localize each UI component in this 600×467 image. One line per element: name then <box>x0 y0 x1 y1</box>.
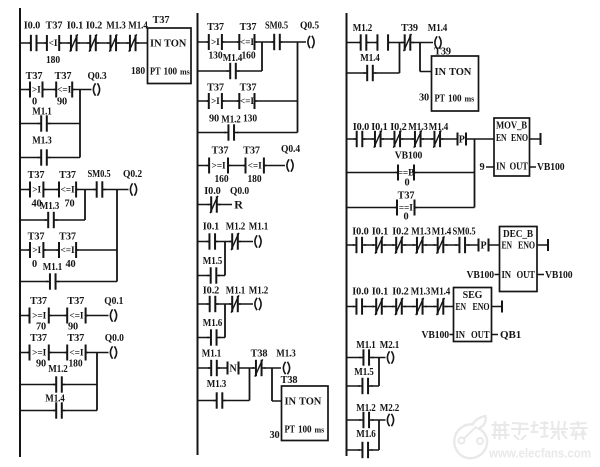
text EN ENO dec <box>502 241 536 252</box>
seg out wire <box>492 334 499 336</box>
contact I0.1 NC c3n2 <box>372 130 385 147</box>
label M1.2 c3n1 <box>353 23 373 34</box>
svg-text:180: 180 <box>131 65 146 77</box>
contact M1.3 NO net2 <box>38 149 51 165</box>
label M1.6 c3n6 <box>356 429 376 440</box>
wire compare1 to compare2 net4 <box>49 315 67 317</box>
label M1.3 <box>106 21 126 32</box>
svg-text:TON: TON <box>449 67 472 78</box>
label I0.1 c3n4 <box>372 287 388 298</box>
wire compare to I0.1 <box>59 42 69 44</box>
wire compare2 to SM0.5 c2n1 <box>255 41 274 43</box>
contact M1.3 NC c3n4 <box>413 298 428 315</box>
svg-text:9: 9 <box>479 162 484 173</box>
svg-text:T37: T37 <box>46 21 63 32</box>
wire rail to I0.2 c2n5 <box>198 303 209 305</box>
svg-text:I0.0: I0.0 <box>352 227 368 238</box>
branch vertical net3 second <box>116 190 118 282</box>
wire I0.0 to T37 compare <box>39 42 47 44</box>
contact I0.2 NC c3n2 <box>391 130 404 147</box>
value 0 under ==I <box>403 212 408 223</box>
contact I0.0 NO <box>29 35 39 51</box>
label T37 net5b <box>67 333 84 344</box>
label M1.4 c2n1 <box>223 53 243 64</box>
label M1.1 net2 <box>32 107 52 118</box>
contact I0.2 NO c2n5 <box>207 296 219 312</box>
wire P box to MOV_B box <box>466 138 494 140</box>
label M1.1 c3n5 <box>356 340 376 351</box>
svg-text:M1.3: M1.3 <box>106 21 126 32</box>
svg-text:30: 30 <box>419 93 429 104</box>
value 90 net2 <box>57 97 67 108</box>
wire compare3 to compare4 net3 <box>43 249 59 251</box>
branch vertical c3n2 <box>474 139 476 208</box>
wire M1.3 to M1.4 c3n3 <box>425 244 436 246</box>
dec input wire <box>495 274 500 276</box>
label T37 c2n1c <box>207 83 224 94</box>
wire rail to M1.2 c3n6 <box>347 419 362 421</box>
wire rail to M1.3 net3 <box>20 219 47 221</box>
text IN OUT mov <box>496 162 528 173</box>
svg-text:EN: EN <box>502 241 513 252</box>
svg-text:SM0.5: SM0.5 <box>265 21 288 32</box>
seg output wire <box>492 306 503 308</box>
svg-text:<=I: <=I <box>61 186 75 196</box>
label M1.2 c2n5 <box>249 286 269 297</box>
wire rail to M1.1 c3n5 <box>347 357 362 359</box>
wire rail to M1.1 c2n6 <box>198 367 211 369</box>
value 40 net3 <box>31 199 41 210</box>
wire rail to compare1 net5 <box>20 352 30 354</box>
contact M1.3 NO net3 <box>45 212 58 228</box>
wire compare4 to branch2 c2n1 <box>255 100 298 102</box>
wire I0.2 to M1.3 c3n2 <box>402 138 414 140</box>
contact SM0.5 NO net3 <box>94 181 106 197</box>
label Q0.0 <box>105 333 124 344</box>
value 90 net5 <box>36 359 46 370</box>
svg-text:M1.3: M1.3 <box>207 379 227 390</box>
contact M1.4 NC <box>127 34 140 51</box>
svg-text:Q0.1: Q0.1 <box>104 296 123 307</box>
svg-text:M1.3: M1.3 <box>411 287 431 298</box>
svg-text:IN: IN <box>502 270 512 281</box>
wire rail to M1.2 net5 <box>20 384 55 386</box>
reset coil R <box>234 198 243 212</box>
contact I0.1 NC <box>68 34 81 51</box>
wire P box to DEC_B box <box>489 244 500 246</box>
wire rail to M1.4 contact c3n1 <box>347 72 366 74</box>
svg-text:I0.1: I0.1 <box>371 122 387 133</box>
svg-text:M1.2: M1.2 <box>249 286 269 297</box>
compare contact T37 &lt;=I net3 <box>57 182 79 198</box>
coil M1.3 <box>283 362 289 374</box>
label T39 c3n1 <box>401 23 418 34</box>
label T38 c2n6 <box>251 349 268 360</box>
label T37 c2n2b <box>243 146 260 157</box>
svg-text:R: R <box>234 198 243 212</box>
label Q0.2 <box>123 169 142 180</box>
svg-text:M1.2: M1.2 <box>226 222 246 233</box>
seg input wire <box>450 334 454 336</box>
svg-text:T37: T37 <box>212 146 229 157</box>
label T37 c2n1a <box>207 22 224 33</box>
wire M1.3 to branch net3 <box>56 219 86 221</box>
svg-text:TON: TON <box>164 39 187 50</box>
svg-text:100: 100 <box>298 425 312 436</box>
svg-text:EN: EN <box>456 302 467 313</box>
svg-text:T37: T37 <box>28 170 45 181</box>
timer text IN TON <box>150 39 187 50</box>
wire rail to M1.5 c3n5 <box>347 385 361 387</box>
svg-text:T37: T37 <box>67 333 84 344</box>
svg-text:M1.3: M1.3 <box>408 122 428 133</box>
wire rail to compare1 net3 <box>20 189 30 191</box>
contact M1.1 NC c2n5 <box>229 295 241 312</box>
seg output tick <box>501 301 503 313</box>
compare contact T37 &gt;=I net4 <box>27 308 51 324</box>
svg-text:M1.4: M1.4 <box>432 227 452 238</box>
svg-text:90: 90 <box>68 322 78 333</box>
svg-text:M1.2: M1.2 <box>48 364 68 375</box>
wire I0.1 to M1.2 c2n4 <box>216 241 231 243</box>
label M1.2 c2n1 <box>221 115 241 126</box>
label M1.3 net3 <box>40 201 60 212</box>
text EN ENO mov <box>496 133 528 144</box>
wire rail to M1.4 net5 <box>20 410 55 412</box>
text VB100 seg in <box>422 329 450 341</box>
svg-text:I0.2: I0.2 <box>392 227 408 238</box>
left power rail column 2 <box>197 13 199 455</box>
wire M1.4 to SEG box <box>446 306 454 308</box>
contact T38 NC c2n6 <box>252 359 266 376</box>
compare contact ==I <box>395 200 418 216</box>
wire branch to T38 box <box>272 400 282 402</box>
label M1.4 parallel c3n1 <box>360 53 380 64</box>
timer T39 PT value 30 <box>419 93 429 104</box>
svg-text:0: 0 <box>404 178 409 189</box>
value 130 c2n1 <box>209 51 223 62</box>
svg-text:SM0.5: SM0.5 <box>453 227 476 238</box>
timer PT value 180 <box>131 65 146 77</box>
value 0 net2 <box>32 97 37 108</box>
wire SM0.5 to P box c3n3 <box>468 244 479 246</box>
svg-text:T38: T38 <box>281 375 298 386</box>
svg-text:Q0.2: Q0.2 <box>123 169 142 180</box>
svg-text:M1.6: M1.6 <box>203 318 223 329</box>
contact M1.2 NO c2n1 <box>224 124 239 140</box>
wire M1.3 to branch <box>49 157 81 159</box>
label M1.3 c2n6 <box>276 349 296 360</box>
svg-text:M1.3: M1.3 <box>32 136 52 147</box>
svg-text:I0.1: I0.1 <box>372 227 388 238</box>
branch vertical c3n6 <box>378 420 380 450</box>
coil M1.4 c3n1 <box>435 36 441 48</box>
wire M1.1 to N box <box>218 367 228 369</box>
svg-text:VB100: VB100 <box>545 269 573 281</box>
svg-text:0: 0 <box>403 212 408 223</box>
wire ==I to branch c3n2 <box>415 207 475 209</box>
label M2.1 c3n5 <box>380 340 400 351</box>
value 0 under ==B <box>404 178 409 189</box>
wire rail to M1.1 net3 <box>20 281 48 283</box>
svg-text:T37: T37 <box>398 191 415 202</box>
branch vertical M1.3 parallel <box>249 368 251 401</box>
wire rail to I0.0 c3n4 <box>347 306 355 308</box>
wire M1.2 to coil M2.2 <box>372 419 386 421</box>
wire I0.0 to I0.1 c3n4 <box>364 306 374 308</box>
wire M1.4 to P box c3n2 <box>442 138 458 140</box>
contact M1.4 NO net5 <box>53 402 65 418</box>
label M1.2 c3n6 <box>356 403 376 414</box>
branch vertical net3 first <box>84 190 86 221</box>
wire rail to M1.3 contact c2n6 <box>198 400 216 402</box>
svg-text:M1.5: M1.5 <box>354 367 374 378</box>
text IN OUT seg <box>456 330 490 341</box>
wire contact B to T39 contact <box>388 42 403 44</box>
svg-text:100: 100 <box>448 94 462 105</box>
value 180 net5 <box>69 359 83 370</box>
svg-text:IN: IN <box>496 162 506 173</box>
svg-text:M1.4: M1.4 <box>128 21 148 32</box>
label T37 net3c <box>28 232 45 243</box>
label SM0.5 c3n3 <box>453 227 476 238</box>
svg-text:Q0.4: Q0.4 <box>281 144 300 155</box>
svg-text:T37: T37 <box>30 333 47 344</box>
watermark url text <box>488 446 591 461</box>
compare contact T37 &lt;=I net2 <box>54 82 75 98</box>
svg-text:T37: T37 <box>59 232 76 243</box>
label Q0.4 <box>281 144 300 155</box>
label I0.1 c3n3 <box>372 227 388 238</box>
compare contact ==B <box>396 165 417 181</box>
wire M1.5 to branch c3n5 <box>371 385 380 387</box>
svg-text:I0.1: I0.1 <box>372 287 388 298</box>
wire M1.1 to branch <box>49 123 81 125</box>
label T37 net4a <box>30 296 47 307</box>
label SM0.5 c2n1 <box>265 21 288 32</box>
contact M1.3 NC <box>107 34 120 51</box>
label T37 <box>46 21 63 32</box>
label T37 net5a <box>30 333 47 344</box>
contact M1.1 NO c3n5 <box>359 349 374 365</box>
svg-text:I0.0: I0.0 <box>352 287 368 298</box>
svg-text:T39: T39 <box>401 23 418 34</box>
svg-text:Q0.0: Q0.0 <box>230 186 249 197</box>
label M1.2 net5 <box>48 364 68 375</box>
contact I0.0 NO c3n2 <box>354 131 366 147</box>
wire rail to compare1 c2n1 <box>198 41 209 43</box>
label Q0.0 c2n3 <box>230 186 249 197</box>
text EN ENO seg <box>456 302 490 313</box>
branch vertical c3n1 first <box>399 43 401 74</box>
svg-text:90: 90 <box>57 97 67 108</box>
svg-text:M1.2: M1.2 <box>353 23 373 34</box>
wire M1.1 to branch2 net3 <box>58 281 118 283</box>
positive edge detector P c3n2 <box>458 133 467 146</box>
wire rail to M1.3 contact <box>20 157 40 159</box>
wire compare1 to compare2 c2n1 <box>222 41 239 43</box>
svg-text:180: 180 <box>46 55 60 66</box>
coil Q0.2 <box>130 183 136 195</box>
wire rail to I0.1 c2n4 <box>198 241 209 243</box>
contact SM0.5 NO c3n3 <box>455 237 470 253</box>
label T37 net3a <box>28 170 45 181</box>
svg-text:M1.1: M1.1 <box>43 262 63 273</box>
svg-text:M2.2: M2.2 <box>380 403 400 414</box>
timer T38 PT value 30 <box>269 430 279 441</box>
svg-text:SEG: SEG <box>463 290 483 301</box>
coil Q0.3 <box>93 83 99 95</box>
svg-text:M1.1: M1.1 <box>202 349 222 360</box>
wire compare3 to compare4 c2n1 <box>222 100 239 102</box>
branch vertical c2n5 <box>224 304 226 338</box>
svg-text:ENO: ENO <box>518 241 535 252</box>
compare contact T37 &lt;=I net5 <box>65 345 88 361</box>
contact M1.2 NO c3n6 <box>359 412 374 428</box>
wire M1.4 to SM0.5 c3n3 <box>446 244 458 246</box>
value 160 c2n1 <box>242 51 256 62</box>
svg-text:VB100: VB100 <box>395 151 423 162</box>
svg-text:<I: <I <box>49 39 58 49</box>
wire compare1 to compare2 net3 <box>43 189 59 191</box>
wire M1.3 to M1.4 c3n2 <box>422 138 433 140</box>
compare contact T37 &lt;=I c2n1 <box>237 34 257 50</box>
svg-text:<=I: <=I <box>240 97 254 107</box>
wire compare2 to coil Q0.3 <box>72 89 91 91</box>
wire I0.2 to M1.3 c3n4 <box>404 306 415 308</box>
label T37 net3d <box>59 232 76 243</box>
svg-text:Q0.3: Q0.3 <box>88 71 107 82</box>
contact M1.5 NO c3n5 <box>358 378 373 394</box>
svg-text:M1.6: M1.6 <box>356 429 376 440</box>
svg-text:I0.0: I0.0 <box>204 186 220 197</box>
svg-text:M2.1: M2.1 <box>380 340 400 351</box>
svg-text:100: 100 <box>164 67 178 78</box>
svg-text:M1.3: M1.3 <box>411 227 431 238</box>
svg-text:<=I: <=I <box>61 246 75 256</box>
contact I0.0 NC c2n3 <box>208 196 221 213</box>
svg-text:70: 70 <box>64 199 74 210</box>
svg-text:M1.4: M1.4 <box>360 53 380 64</box>
text QB1 seg out <box>500 329 521 341</box>
compare contact T37 &lt;=I c2n1 lower <box>237 93 257 109</box>
label M1.3 c3n2 <box>408 122 428 133</box>
coil Q0.0 <box>110 346 116 358</box>
wire M1.6 to branch c2n5 <box>219 337 226 339</box>
wire rail to M1.5 c2n4 <box>198 275 210 277</box>
svg-text:>=I: >=I <box>212 162 226 172</box>
contact M1.2 NC c2n4 <box>229 233 241 250</box>
wire M1.4 to branch net5 <box>63 410 97 412</box>
svg-text:>=I: >=I <box>32 312 46 322</box>
svg-text:I0.1: I0.1 <box>67 21 83 32</box>
svg-text:M1.4: M1.4 <box>429 122 449 133</box>
svg-text:M1.3: M1.3 <box>276 349 296 360</box>
svg-text:>=I: >=I <box>32 349 46 359</box>
negative edge detector N <box>228 362 239 375</box>
svg-text:OUT: OUT <box>517 270 536 281</box>
svg-text:160: 160 <box>242 51 256 62</box>
svg-text:T37: T37 <box>240 83 257 94</box>
svg-text:M1.2: M1.2 <box>356 403 376 414</box>
contact M1.3 NC c3n2 <box>412 130 425 147</box>
svg-text:N: N <box>229 364 237 375</box>
svg-text:T37: T37 <box>153 15 170 26</box>
svg-text:40: 40 <box>65 259 75 270</box>
wire M1.4 to branch c2n1 <box>238 70 263 72</box>
svg-text:T37: T37 <box>243 146 260 157</box>
svg-text:DEC_B: DEC_B <box>503 229 533 240</box>
svg-text:<=I: <=I <box>240 38 254 48</box>
coil M1.1 <box>255 235 261 247</box>
svg-text:70: 70 <box>36 322 46 333</box>
svg-text:ms: ms <box>180 68 190 77</box>
timer T39 text PT 100 ms <box>435 94 475 105</box>
mov out wire VB100 <box>530 166 537 168</box>
compare contact T37 &gt;=I c2n2 <box>207 158 231 174</box>
wire rail to M1.1 contact <box>20 123 40 125</box>
svg-text:M1.4: M1.4 <box>428 23 448 34</box>
contact M1.1 NO c2n6 <box>208 360 220 376</box>
svg-text:90: 90 <box>36 359 46 370</box>
timer text PT 100 ms <box>150 67 190 78</box>
svg-text:MOV_B: MOV_B <box>496 121 527 132</box>
timer T37 label <box>153 15 170 26</box>
value 0 net3 <box>32 259 37 270</box>
value 130 c2n1 lower <box>243 114 257 125</box>
compare contact T37 &gt;I c2n1 <box>206 34 224 50</box>
svg-text:IN: IN <box>150 39 162 50</box>
svg-text:IN: IN <box>435 67 447 78</box>
box DEC_B <box>500 227 538 292</box>
wire M1.4 to branch c3n1 <box>375 72 400 74</box>
label T37 net2b <box>55 71 72 82</box>
wire rail to I0.0 c2n3 <box>198 204 210 206</box>
label I0.1 c2n4 <box>203 222 219 233</box>
coil M2.1 <box>387 351 393 363</box>
wire ==B to branch c3n2 <box>414 172 475 174</box>
box SEG <box>454 288 492 342</box>
contact M1.4 NO c2n1 <box>227 63 240 79</box>
svg-text:0: 0 <box>32 259 37 270</box>
contact I0.1 NC c3n3 <box>372 236 386 253</box>
svg-text:Q0.5: Q0.5 <box>300 21 319 32</box>
compare contact T37 &lt;=I net3 lower <box>57 242 79 258</box>
branch vertical c2n4 <box>224 242 226 276</box>
wire I0.1 to I0.2 c3n4 <box>384 306 394 308</box>
svg-text:<=I: <=I <box>57 86 71 96</box>
label I0.0 c3n4 <box>352 287 368 298</box>
svg-text:30: 30 <box>269 430 279 441</box>
label I0.2 c3n4 <box>392 287 408 298</box>
svg-text:VB100: VB100 <box>422 329 450 341</box>
contact SM0.5 NO c2n1 <box>272 34 283 50</box>
svg-text:>I: >I <box>211 38 220 48</box>
compare contact T37 &lt;=I c2n2 <box>243 158 266 174</box>
svg-text:Q0.0: Q0.0 <box>105 333 124 344</box>
wire rail to compare3 net3 <box>20 249 30 251</box>
timer box T38 TON <box>282 386 329 441</box>
contact M1.4 NC c3n4 <box>434 298 448 315</box>
wire I0.1 to I0.2 <box>78 42 89 44</box>
value 70 net3 <box>64 199 74 210</box>
label M1.4 c3n3 <box>432 227 452 238</box>
wire rail to M1.6 c3n6 <box>347 449 361 451</box>
coil Q0.5 <box>308 36 314 48</box>
label M1.5 c2n4 <box>203 256 223 267</box>
label I0.2 c2n5 <box>203 286 219 297</box>
left power rail column 3 <box>346 13 348 456</box>
